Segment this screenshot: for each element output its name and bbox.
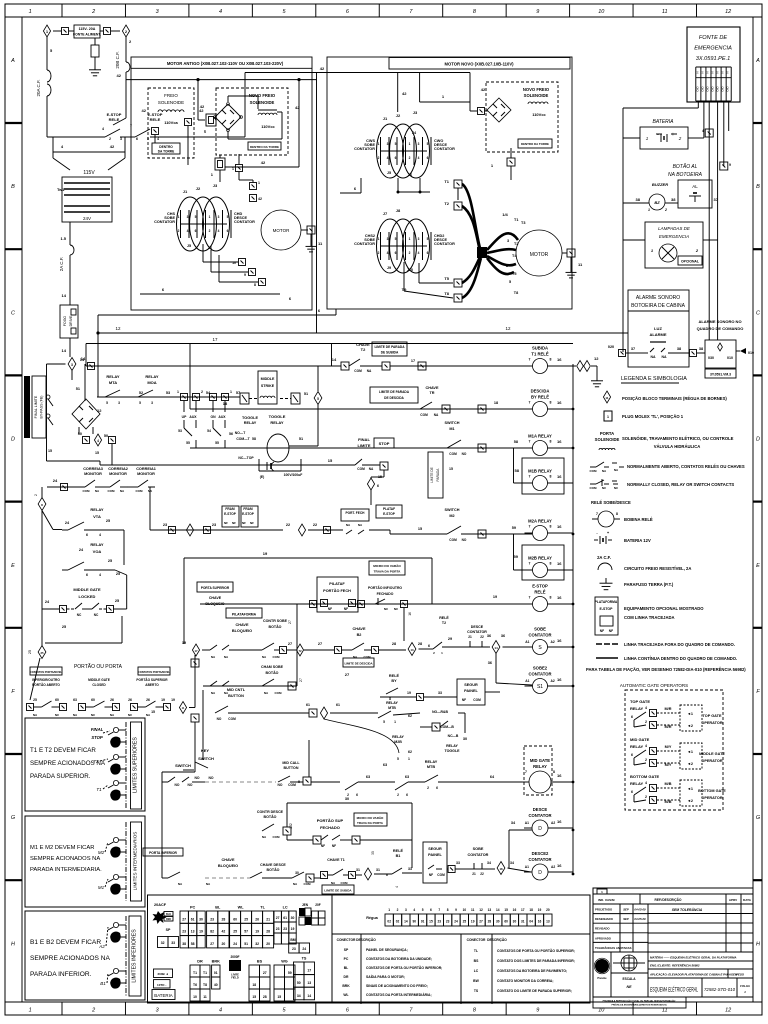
svg-text:NF: NF	[429, 873, 433, 877]
svg-text:T1: T1	[203, 971, 207, 975]
svg-text:E-STOP: E-STOP	[242, 512, 255, 516]
svg-text:E-STOP: E-STOP	[600, 607, 614, 611]
svg-text:26: 26	[146, 698, 150, 702]
svg-text:LIMITE DE PARADA: LIMITE DE PARADA	[379, 390, 410, 394]
svg-text:CONTATOR: CONTATOR	[354, 147, 375, 151]
svg-text:42: 42	[142, 108, 147, 113]
svg-text:NO: NO	[194, 776, 199, 780]
svg-text:CONECTOR: CONECTOR	[337, 938, 356, 942]
svg-text:3: 3	[218, 215, 220, 219]
svg-text:B: B	[756, 184, 760, 190]
svg-text:7: 7	[529, 562, 531, 566]
svg-text:NA: NA	[434, 413, 439, 417]
svg-text:82: 82	[210, 930, 214, 934]
svg-text:12: 12	[97, 408, 102, 413]
svg-text:42: 42	[481, 87, 486, 92]
svg-text:PORTÃO ABERTO: PORTÃO ABERTO	[32, 682, 60, 687]
svg-text:LINHA TRACEJADA FORA DO QUADRO: LINHA TRACEJADA FORA DO QUADRO DE COMAND…	[624, 642, 735, 647]
svg-text:SAÍDA PARA O MOTOR;: SAÍDA PARA O MOTOR;	[366, 974, 405, 979]
svg-text:15: 15	[449, 467, 453, 471]
svg-text:A1: A1	[525, 679, 529, 683]
svg-text:12: 12	[594, 356, 599, 361]
svg-text:BL: BL	[344, 966, 349, 970]
svg-text:3: 3	[71, 363, 73, 367]
svg-text:3: 3	[418, 142, 420, 146]
svg-text:CONTATO DOS LIMITES DE PARADA: CONTATO DOS LIMITES DE PARADA INFERIOR;	[497, 959, 575, 963]
svg-text:T2: T2	[442, 621, 446, 625]
svg-text:(E): (E)	[260, 475, 265, 479]
svg-text:19: 19	[493, 595, 497, 599]
svg-text:5: 5	[422, 908, 424, 912]
svg-text:J9: J9	[387, 266, 391, 270]
svg-text:CHAVE DESCE: CHAVE DESCE	[260, 863, 286, 867]
svg-text:M1: M1	[98, 885, 105, 890]
svg-text:FECHADO: FECHADO	[377, 592, 394, 596]
svg-text:LAMPADAS DE: LAMPADAS DE	[658, 226, 691, 231]
svg-text:TOLERÂNCIAS ANOTADAS: TOLERÂNCIAS ANOTADAS	[595, 945, 632, 950]
svg-text:12: 12	[725, 9, 731, 15]
svg-text:58: 58	[514, 440, 518, 444]
svg-text:33: 33	[171, 941, 175, 945]
svg-text:26: 26	[110, 698, 114, 702]
svg-text:STOP: STOP	[91, 735, 103, 740]
svg-text:DE DESCIDA: DE DESCIDA	[384, 396, 404, 400]
svg-text:28: 28	[222, 917, 226, 921]
svg-text:T8: T8	[444, 291, 449, 296]
svg-text:OPERATOR: OPERATOR	[701, 759, 722, 763]
svg-text:4: 4	[645, 706, 647, 710]
svg-text:7: 7	[529, 525, 531, 529]
svg-text:CONTATOS DE PORTA OU PORTÃO SU: CONTATOS DE PORTA OU PORTÃO SUPERIOR;	[497, 948, 575, 953]
svg-text:CORREIA2: CORREIA2	[108, 467, 128, 471]
svg-text:T2: T2	[93, 759, 99, 764]
svg-text:NF: NF	[321, 844, 325, 848]
svg-text:SOLENOIDE: SOLENOIDE	[250, 100, 275, 105]
svg-text:61: 61	[306, 703, 310, 707]
svg-text:30: 30	[199, 917, 203, 921]
svg-text:5: 5	[106, 401, 108, 405]
svg-text:19: 19	[182, 641, 186, 645]
svg-text:16: 16	[557, 561, 562, 566]
svg-text:3: 3	[118, 401, 120, 405]
svg-text:6: 6	[136, 137, 138, 141]
svg-text:3: 3	[151, 401, 153, 405]
svg-text:27: 27	[263, 971, 267, 975]
svg-text:42: 42	[402, 91, 407, 96]
svg-text:NORMALLY CLOSED, RELAY OR SWIT: NORMALLY CLOSED, RELAY OR SWITCH CONTACT…	[627, 482, 734, 487]
svg-text:RELAY: RELAY	[392, 735, 404, 739]
svg-text:FRAM: FRAM	[225, 507, 235, 511]
svg-text:CHAVE: CHAVE	[221, 858, 234, 862]
svg-text:D: D	[538, 826, 542, 832]
svg-text:16: 16	[557, 819, 562, 824]
svg-text:PARADA: PARADA	[436, 468, 440, 482]
svg-text:6: 6	[427, 156, 429, 160]
svg-text:020: 020	[608, 345, 614, 349]
svg-text:UP: UP	[182, 415, 187, 419]
svg-text:CONTATOS PORTA/NIVEL: CONTATOS PORTA/NIVEL	[30, 670, 63, 674]
svg-text:APROVADO: APROVADO	[595, 936, 612, 940]
svg-text:2: 2	[409, 156, 411, 160]
svg-text:NF: NF	[600, 629, 604, 633]
svg-text:14: 14	[404, 920, 408, 924]
svg-text:IND. UAS/M: IND. UAS/M	[598, 898, 615, 902]
svg-text:2: 2	[178, 229, 180, 233]
svg-text:BOTÃO AL: BOTÃO AL	[673, 163, 698, 170]
svg-text:T2: T2	[444, 201, 449, 206]
svg-text:TOGGLE: TOGGLE	[269, 414, 286, 419]
svg-text:6: 6	[631, 790, 633, 794]
svg-text:◄2: ◄2	[687, 799, 693, 803]
svg-text:110Vca: 110Vca	[164, 120, 178, 125]
svg-text:4: 4	[413, 908, 415, 912]
svg-text:RELAY: RELAY	[106, 374, 120, 379]
svg-text:PROJETADO: PROJETADO	[595, 908, 613, 912]
svg-text:M1 E M2 DEVEM FICAR: M1 E M2 DEVEM FICAR	[30, 845, 94, 851]
svg-text:20: 20	[266, 942, 270, 946]
svg-text:REF./DESCRIÇÃO: REF./DESCRIÇÃO	[655, 897, 682, 902]
svg-text:NOVO FREIO: NOVO FREIO	[249, 93, 276, 98]
svg-text:FINAL: FINAL	[91, 727, 104, 732]
svg-text:010: 010	[748, 351, 754, 355]
svg-text:23: 23	[163, 523, 167, 527]
svg-text:VTA: VTA	[93, 514, 101, 519]
svg-text:5: 5	[395, 237, 397, 241]
svg-text:MONITOR: MONITOR	[84, 472, 102, 476]
svg-text:G: G	[11, 815, 16, 821]
svg-text:COM: COM	[590, 469, 598, 473]
svg-text:E-STOP: E-STOP	[532, 584, 548, 589]
svg-text:1: 1	[409, 237, 411, 241]
svg-text:6: 6	[395, 251, 397, 255]
svg-text:NF: NF	[332, 844, 336, 848]
svg-text:61: 61	[191, 917, 195, 921]
svg-text:BS: BS	[257, 960, 263, 964]
svg-text:5: 5	[139, 401, 141, 405]
svg-text:PORT. FECH: PORT. FECH	[346, 511, 366, 515]
svg-text:ON: ON	[210, 415, 216, 419]
svg-text:SEMPRE ACIONADOS NA: SEMPRE ACIONADOS NA	[30, 856, 100, 862]
svg-text:PAINEL: PAINEL	[428, 853, 442, 857]
svg-text:PLATAF: PLATAF	[383, 507, 395, 511]
svg-text:6: 6	[86, 533, 88, 537]
svg-text:18: 18	[529, 908, 533, 912]
svg-text:TL: TL	[474, 949, 478, 953]
svg-text:8: 8	[553, 770, 555, 774]
svg-text:+: +	[672, 132, 675, 138]
svg-text:30: 30	[291, 916, 295, 920]
svg-text:1: 1	[230, 390, 232, 394]
svg-text:DENTRO: DENTRO	[159, 145, 173, 149]
svg-text:NC—B: NC—B	[448, 734, 459, 738]
svg-text:NA: NA	[661, 355, 667, 359]
svg-text:TOGGLE: TOGGLE	[444, 749, 460, 753]
svg-text:19: 19	[171, 698, 175, 702]
svg-text:DE SUBIDA: DE SUBIDA	[381, 351, 399, 355]
svg-text:PROIBIDA A REPRODUÇÃO TOTAL OU: PROIBIDA A REPRODUÇÃO TOTAL OU PARCIAL S…	[603, 1000, 676, 1003]
svg-text:12: 12	[115, 326, 121, 331]
svg-text:PRÉVIA DA ENGENHARIA (DIREITOS: PRÉVIA DA ENGENHARIA (DIREITOS RESERVADO…	[611, 1004, 666, 1007]
svg-text:CONTATOS DE PORTA OU PORTÃO IN: CONTATOS DE PORTA OU PORTÃO INFERIOR;	[366, 965, 442, 970]
svg-text:8: 8	[550, 525, 552, 529]
svg-text:5: 5	[317, 397, 319, 401]
svg-text:2: 2	[678, 136, 682, 141]
svg-text:COM: COM	[354, 369, 362, 373]
svg-text:36: 36	[487, 634, 491, 638]
svg-text:11: 11	[471, 908, 475, 912]
svg-text:N: N	[726, 71, 730, 73]
svg-text:24: 24	[233, 942, 237, 946]
svg-text:BLOQUEIO: BLOQUEIO	[232, 629, 252, 633]
svg-text:42: 42	[110, 144, 115, 149]
svg-text:15: 15	[95, 451, 99, 455]
svg-text:4: 4	[99, 533, 101, 537]
svg-text:RELAY: RELAY	[630, 706, 644, 711]
svg-text:RELÉ: RELÉ	[439, 615, 449, 620]
svg-text:SEGUR: SEGUR	[464, 683, 478, 687]
svg-text:51: 51	[304, 392, 308, 396]
svg-text:MOTOR NOVO (X0B.027.10B-110V): MOTOR NOVO (X0B.027.10B-110V)	[444, 62, 514, 67]
svg-text:5: 5	[509, 280, 511, 284]
svg-text:18: 18	[252, 983, 256, 987]
svg-text:OIO: OIO	[716, 86, 720, 92]
svg-text:G: G	[756, 815, 761, 821]
svg-text:5: 5	[227, 215, 229, 219]
svg-text:3: 3	[387, 237, 389, 241]
svg-text:5: 5	[383, 720, 385, 724]
svg-text:302: 302	[289, 823, 293, 829]
svg-text:19: 19	[471, 920, 475, 924]
svg-text:19: 19	[407, 691, 411, 695]
svg-text:T1: T1	[96, 787, 102, 792]
svg-text:LINHA CONTÍNUA DENTRO DO QUADR: LINHA CONTÍNUA DENTRO DO QUADRO DE COMAN…	[624, 656, 737, 661]
svg-text:NO: NO	[462, 452, 467, 456]
svg-text:NF: NF	[242, 521, 246, 525]
svg-text:JEN: JEN	[302, 903, 309, 907]
svg-text:RELAY: RELAY	[630, 781, 644, 786]
svg-text:16: 16	[557, 400, 562, 405]
svg-text:NA: NA	[369, 467, 374, 471]
svg-text:DESCE: DESCE	[471, 625, 484, 629]
svg-text:17: 17	[307, 969, 311, 973]
svg-text:33: 33	[438, 691, 442, 695]
svg-text:115V- 20A: 115V- 20A	[79, 27, 96, 31]
svg-text:NO—T: NO—T	[235, 431, 246, 435]
svg-text:60: 60	[504, 920, 508, 924]
svg-text:19: 19	[538, 908, 542, 912]
svg-text:BOTÃO: BOTÃO	[266, 670, 279, 675]
svg-text:2: 2	[91, 1008, 95, 1014]
svg-text:7: 7	[529, 475, 531, 479]
svg-text:TRAVA DA PORTA: TRAVA DA PORTA	[357, 821, 384, 825]
svg-text:3: 3	[187, 215, 189, 219]
svg-text:3: 3	[120, 137, 122, 141]
svg-text:16: 16	[557, 357, 562, 362]
svg-text:NO: NO	[217, 717, 222, 721]
svg-text:3Y.0591.VM.3: 3Y.0591.VM.3	[710, 373, 731, 377]
svg-text:N: N	[710, 71, 714, 73]
svg-text:CORREIA3: CORREIA3	[83, 467, 103, 471]
svg-text:FRAM: FRAM	[243, 507, 253, 511]
svg-text:30: 30	[345, 797, 349, 801]
svg-text:RELAY: RELAY	[145, 374, 159, 379]
svg-text:BY RELÉ: BY RELÉ	[531, 395, 549, 400]
svg-text:30: 30	[463, 737, 467, 741]
svg-text:2: 2	[409, 251, 411, 255]
svg-text:E: E	[756, 563, 760, 569]
svg-text:COM: COM	[228, 717, 236, 721]
svg-text:BOTÃO: BOTÃO	[264, 814, 277, 819]
svg-text:010: 010	[727, 356, 733, 360]
svg-text:33: 33	[408, 867, 412, 871]
svg-text:CHAVE: CHAVE	[352, 627, 365, 631]
svg-text:11: 11	[605, 396, 609, 400]
svg-text:ESQUEMA ELÉTRICO GERAL: ESQUEMA ELÉTRICO GERAL	[650, 987, 698, 994]
svg-text:DESCE2: DESCE2	[532, 851, 549, 856]
svg-text:4: 4	[187, 229, 189, 233]
svg-text:B1 E B2 DEVEM FICAR: B1 E B2 DEVEM FICAR	[30, 939, 101, 946]
svg-text:72582-STD-010: 72582-STD-010	[704, 987, 735, 992]
svg-text:FIELD: FIELD	[231, 976, 239, 980]
svg-text:Régua: Régua	[366, 916, 378, 920]
svg-text:4: 4	[418, 251, 420, 255]
svg-text:7: 7	[438, 908, 440, 912]
svg-text:A2: A2	[551, 640, 555, 644]
svg-text:16: 16	[408, 612, 412, 616]
svg-text:115V: 115V	[83, 170, 95, 176]
svg-text:DENTRO DA TORRE: DENTRO DA TORRE	[250, 145, 279, 149]
svg-text:BATERIA: BATERIA	[154, 993, 173, 998]
svg-text:MICRO DO VARÃO: MICRO DO VARÃO	[357, 815, 384, 820]
svg-text:OIO: OIO	[721, 86, 725, 92]
svg-text:51: 51	[299, 437, 303, 441]
svg-text:NC: NC	[77, 613, 82, 617]
svg-text:LIMITE DE: LIMITE DE	[430, 467, 434, 483]
svg-text:2A C.F.: 2A C.F.	[59, 257, 64, 272]
svg-text:BATERIA: BATERIA	[652, 119, 674, 125]
svg-text:CHAVE T1: CHAVE T1	[327, 858, 345, 862]
svg-text:28: 28	[263, 995, 267, 999]
svg-text:COM: COM	[420, 413, 428, 417]
svg-text:SOLENOIDE: SOLENOIDE	[158, 100, 184, 105]
svg-text:BOTÃO: BOTÃO	[269, 624, 282, 629]
svg-text:DA TORRE: DA TORRE	[158, 150, 174, 154]
svg-text:6: 6	[395, 156, 397, 160]
svg-text:27: 27	[479, 920, 483, 924]
svg-text:1: 1	[29, 9, 32, 15]
svg-text:A: A	[755, 58, 760, 64]
svg-text:14: 14	[62, 293, 67, 298]
svg-text:6: 6	[195, 229, 197, 233]
svg-text:CONTATOR: CONTATOR	[434, 147, 455, 151]
svg-text:1: 1	[388, 908, 390, 912]
svg-text:14: 14	[80, 357, 85, 362]
svg-text:38: 38	[182, 942, 186, 946]
svg-text:15: 15	[151, 710, 155, 714]
svg-text:LIMITES INTERMEDIARIOS: LIMITES INTERMEDIARIOS	[133, 832, 138, 891]
svg-text:OPCIONAL: OPCIONAL	[681, 260, 699, 264]
svg-text:PLUG MOLEX 'TL', POSIÇÃO 1: PLUG MOLEX 'TL', POSIÇÃO 1	[622, 414, 684, 419]
svg-text:1: 1	[258, 181, 260, 185]
svg-text:52: 52	[139, 391, 143, 395]
svg-text:TL: TL	[260, 906, 265, 910]
svg-text:4: 4	[645, 744, 647, 748]
svg-text:COM: COM	[136, 489, 144, 493]
svg-text:20B C.F.: 20B C.F.	[115, 51, 120, 68]
svg-text:DESCRIÇÃO: DESCRIÇÃO	[356, 937, 376, 942]
svg-text:11: 11	[203, 995, 207, 999]
svg-text:LOCKED: LOCKED	[79, 594, 96, 599]
svg-text:A2: A2	[551, 865, 555, 869]
svg-text:A1: A1	[525, 865, 529, 869]
svg-text:PC: PC	[190, 906, 196, 910]
svg-text:EQUIPAMENTO OPCIONAL MOSTRADO: EQUIPAMENTO OPCIONAL MOSTRADO	[624, 606, 704, 611]
svg-text:8: 8	[550, 596, 552, 600]
svg-text:INFERIOR/OUTRO: INFERIOR/OUTRO	[32, 678, 60, 682]
svg-text:NA BOTOEIRA: NA BOTOEIRA	[668, 172, 703, 178]
svg-text:RELAY: RELAY	[90, 507, 104, 512]
svg-text:8: 8	[550, 401, 552, 405]
svg-text:CORREIA1: CORREIA1	[136, 467, 156, 471]
svg-text:24V: 24V	[83, 216, 91, 221]
svg-text:27: 27	[288, 620, 292, 624]
svg-text:42: 42	[261, 160, 266, 165]
svg-text:31: 31	[376, 868, 380, 872]
svg-text:25: 25	[108, 559, 112, 563]
svg-text:A2: A2	[98, 944, 105, 949]
svg-text:J6: J6	[408, 173, 412, 177]
svg-text:8: 8	[550, 440, 552, 444]
svg-text:CHAVE: CHAVE	[425, 386, 438, 390]
svg-text:PLATAFORMA: PLATAFORMA	[595, 600, 618, 604]
svg-text:15: 15	[252, 995, 256, 999]
svg-text:BL: BL	[215, 906, 221, 910]
svg-text:ALARME SONORO: ALARME SONORO	[636, 295, 680, 301]
svg-text:19: 19	[263, 551, 268, 556]
svg-text:SP: SP	[166, 928, 171, 932]
svg-text:TR: TR	[429, 391, 434, 395]
svg-text:37: 37	[631, 347, 635, 351]
svg-text:4: 4	[645, 781, 647, 785]
svg-text:200B ◄: 200B ◄	[158, 972, 169, 976]
svg-text:FECHADO: FECHADO	[320, 825, 340, 830]
svg-text:T8: T8	[514, 291, 518, 295]
svg-text:2000F: 2000F	[230, 955, 239, 959]
svg-text:T3: T3	[521, 221, 525, 225]
svg-text:VÁLVULA HIDRÁULICA: VÁLVULA HIDRÁULICA	[654, 444, 701, 449]
svg-text:4: 4	[418, 156, 420, 160]
svg-text:A1: A1	[525, 821, 529, 825]
svg-text:SEP: SEP	[623, 908, 629, 912]
svg-text:42: 42	[222, 930, 226, 934]
svg-text:COM: COM	[449, 452, 457, 456]
svg-text:55: 55	[186, 441, 190, 445]
svg-text:23: 23	[210, 917, 214, 921]
svg-text:51: 51	[76, 387, 80, 391]
svg-text:BY: BY	[391, 679, 397, 683]
svg-text:SEM TOLERÂNCIA: SEM TOLERÂNCIA	[672, 907, 703, 912]
svg-text:BOTÃO: BOTÃO	[267, 867, 280, 872]
svg-text:14: 14	[496, 908, 500, 912]
svg-text:Pivante: Pivante	[597, 976, 607, 980]
svg-text:OIO: OIO	[695, 86, 699, 92]
svg-text:17: 17	[521, 908, 525, 912]
svg-text:◄1: ◄1	[687, 750, 693, 754]
svg-text:LIMITES SUPERIORES: LIMITES SUPERIORES	[133, 737, 139, 793]
svg-text:36: 36	[488, 661, 492, 665]
svg-text:57: 57	[236, 391, 240, 395]
svg-text:16: 16	[557, 439, 562, 444]
